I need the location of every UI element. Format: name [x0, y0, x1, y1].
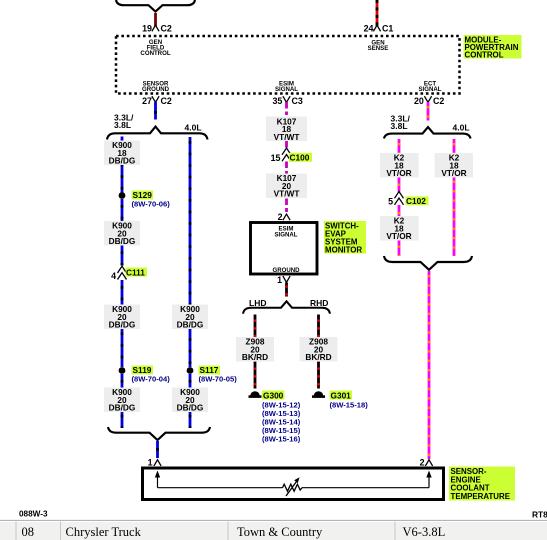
wire K107 18 VT/WT: [285, 102, 288, 115]
table row: [0, 522, 547, 540]
splice S129: [119, 190, 171, 209]
svg-text:(8W-15-18): (8W-15-18): [330, 400, 369, 409]
svg-text:088W-3: 088W-3: [19, 510, 48, 519]
label ESIM SIGNAL (module pin): [275, 81, 298, 94]
wire K900 20 DB/DG upper: [121, 199, 124, 266]
svg-text:3.8L: 3.8L: [391, 121, 408, 131]
label SWITCH-EVAP SYSTEM MONITOR: [324, 221, 366, 255]
svg-text:(8W-70-06): (8W-70-06): [132, 200, 171, 209]
svg-text:1: 1: [148, 457, 153, 467]
pin 24 C1: [364, 23, 394, 33]
label K900 20 DB/DG mid-left: [104, 304, 140, 329]
svg-text:SIGNAL: SIGNAL: [275, 86, 298, 93]
svg-text:RT8: RT8: [532, 510, 547, 520]
svg-text:C2: C2: [161, 23, 172, 33]
svg-text:S119: S119: [133, 365, 152, 375]
pin 20 C2: [414, 96, 444, 106]
svg-text:GROUND: GROUND: [272, 267, 300, 274]
pin 27 C2: [142, 96, 172, 106]
wire K2 4.0L branch: [453, 139, 456, 256]
label K900 20 DB/DG bottom-right: [172, 387, 208, 412]
pin 2 sensor: [420, 457, 433, 467]
svg-text:DB/DG: DB/DG: [177, 403, 204, 413]
wire to C100: [285, 141, 288, 148]
label 4.0L right: [453, 122, 470, 132]
svg-text:C100: C100: [290, 153, 310, 163]
pin 1 sensor: [148, 457, 162, 467]
pin 2 ESIM: [278, 212, 291, 222]
wire K2 below C102: [398, 205, 401, 219]
svg-text:(8W-15-16): (8W-15-16): [262, 435, 301, 444]
svg-text:Town & Country: Town & Country: [237, 525, 323, 539]
wire K900 to merge left: [121, 374, 124, 428]
svg-text:2: 2: [278, 212, 283, 222]
svg-text:DB/DG: DB/DG: [109, 236, 136, 246]
svg-text:DB/DG: DB/DG: [109, 320, 136, 330]
ground G300: [249, 390, 301, 443]
split brace ECT: [384, 127, 471, 139]
svg-text:SENSE: SENSE: [368, 45, 389, 52]
label K900 20 DB/DG mid-right: [172, 304, 208, 329]
label 3.3L/3.8L right: [391, 113, 411, 131]
svg-text:35: 35: [273, 96, 283, 106]
svg-text:2: 2: [420, 457, 425, 467]
split brace LHD/RHD: [243, 301, 330, 313]
wire Z908 LHD lower: [254, 362, 257, 389]
svg-text:C3: C3: [292, 96, 303, 106]
pin 1 ESIM ground: [277, 275, 290, 285]
connector C111: [111, 266, 147, 281]
label Z908 20 BK/RD right: [300, 337, 338, 362]
pin 35 C3: [273, 96, 303, 106]
svg-text:15: 15: [271, 153, 281, 163]
svg-text:Chrysler Truck: Chrysler Truck: [66, 525, 142, 539]
svg-text:C111: C111: [126, 267, 145, 277]
svg-text:DB/DG: DB/DG: [109, 156, 136, 166]
svg-text:C102: C102: [406, 196, 426, 206]
connector C100: [271, 148, 312, 163]
svg-text:TEMPERATURE: TEMPERATURE: [451, 492, 510, 501]
svg-text:DB/DG: DB/DG: [109, 403, 136, 413]
label RHD: [310, 298, 328, 308]
svg-text:VT/WT: VT/WT: [274, 132, 300, 142]
svg-text:LHD: LHD: [249, 298, 266, 308]
thermistor symbol: [283, 477, 303, 496]
svg-text:(8W-70-04): (8W-70-04): [132, 375, 171, 384]
label K107 20 VT/WT: [266, 173, 307, 198]
splice S117: [187, 365, 238, 384]
svg-text:1: 1: [277, 275, 282, 285]
wire GEN SENSE (red/black): [376, 0, 379, 27]
label K107 18 VT/WT: [266, 116, 307, 141]
wire sensor ground pin drop: [154, 102, 157, 120]
wire to C102: [398, 178, 401, 192]
wire Z908 RHD lower: [317, 362, 320, 389]
svg-text:(8W-70-05): (8W-70-05): [199, 375, 238, 384]
svg-text:S129: S129: [133, 190, 153, 200]
svg-text:SIGNAL: SIGNAL: [274, 232, 297, 239]
splice S119: [119, 365, 171, 384]
svg-text:G301: G301: [331, 390, 352, 400]
label 3.3L/3.8L left: [114, 112, 134, 130]
svg-text:5: 5: [388, 196, 393, 206]
svg-text:27: 27: [142, 96, 152, 106]
footer RT8: [532, 510, 547, 520]
svg-text:C2: C2: [161, 96, 172, 106]
wire GEN FIELD CONTROL (dark red): [154, 13, 157, 27]
label K2 18 VT/OR left-top: [380, 153, 419, 178]
wire ECT pin drop: [427, 102, 430, 121]
label K900 20 DB/DG upper: [104, 221, 140, 246]
wire K900 18 DB/DG (3.3L branch): [121, 137, 124, 193]
svg-text:24: 24: [364, 23, 374, 33]
footer 088W-3: [19, 510, 48, 519]
pin 19 C2: [142, 23, 172, 33]
svg-text:VT/WT: VT/WT: [274, 189, 300, 199]
wire K2 3.3L branch upper: [398, 139, 401, 154]
footer rule: [0, 519, 547, 521]
svg-text:4.0L: 4.0L: [185, 122, 202, 132]
svg-text:C1: C1: [382, 23, 393, 33]
label K900 18 DB/DG: [104, 140, 140, 165]
svg-text:DB/DG: DB/DG: [177, 320, 204, 330]
wire K2 to merge left: [398, 241, 401, 257]
svg-text:CONTROL: CONTROL: [465, 51, 504, 60]
ESIM box: [251, 223, 318, 275]
label ECT SIGNAL: [418, 81, 441, 94]
svg-text:VT/OR: VT/OR: [386, 231, 411, 241]
wire K2 to sensor pin 2: [428, 271, 431, 459]
svg-text:20: 20: [414, 96, 424, 106]
wire Z908 RHD upper: [317, 315, 320, 338]
wire to sensor pin 1: [156, 441, 159, 458]
ground G301: [312, 390, 368, 409]
svg-text:19: 19: [142, 23, 152, 33]
svg-text:VT/OR: VT/OR: [386, 168, 411, 178]
svg-text:4: 4: [111, 271, 116, 281]
split brace left column: [107, 127, 208, 140]
label SENSOR-ENGINE COOLANT TEMPERATURE: [449, 467, 515, 502]
wire K900 20 DB/DG lower: [121, 280, 124, 367]
wire to ESIM pin 2: [285, 199, 288, 213]
svg-text:SIGNAL: SIGNAL: [418, 86, 441, 93]
label MODULE-POWERTRAIN CONTROL: [464, 35, 522, 60]
label SENSOR GROUND: [142, 81, 170, 94]
svg-text:S117: S117: [200, 365, 219, 375]
label Z908 20 BK/RD left: [236, 337, 274, 362]
label K2 18 VT/OR left-bottom: [380, 216, 419, 241]
svg-text:BK/RD: BK/RD: [305, 352, 331, 362]
merge brace ECT: [384, 256, 472, 270]
merge brace (clipped, top): [116, 0, 195, 12]
svg-text:08: 08: [22, 525, 35, 539]
label K2 18 VT/OR right: [435, 153, 474, 178]
svg-text:MONITOR: MONITOR: [325, 246, 362, 255]
svg-text:V6-3.8L: V6-3.8L: [403, 525, 446, 539]
wire ESIM ground drop: [285, 283, 288, 297]
sensor internal circuit: [155, 471, 432, 488]
label GEN FIELD CONTROL: [140, 39, 170, 57]
PCM module dashed box: [116, 36, 460, 94]
wire K107 20 VT/WT: [285, 162, 288, 174]
wire K900 merge right: [189, 374, 192, 428]
svg-text:GROUND: GROUND: [142, 86, 170, 93]
label K900 20 DB/DG bottom-left: [104, 387, 140, 412]
label LHD: [249, 298, 266, 308]
svg-text:BK/RD: BK/RD: [242, 352, 268, 362]
connector C102: [388, 192, 428, 207]
svg-text:4.0L: 4.0L: [453, 122, 470, 132]
label GEN SENSE: [368, 40, 389, 53]
sensor box: [143, 468, 444, 500]
merge brace left column: [108, 427, 210, 440]
svg-text:VT/OR: VT/OR: [441, 168, 466, 178]
svg-text:RHD: RHD: [310, 298, 328, 308]
svg-text:G300: G300: [263, 390, 284, 400]
svg-text:3.8L: 3.8L: [114, 120, 131, 130]
svg-text:C2: C2: [433, 96, 444, 106]
wire K900 4.0L branch: [189, 137, 192, 367]
svg-text:CONTROL: CONTROL: [140, 50, 170, 57]
wire Z908 LHD upper: [254, 315, 257, 338]
label 4.0L left: [185, 122, 202, 132]
